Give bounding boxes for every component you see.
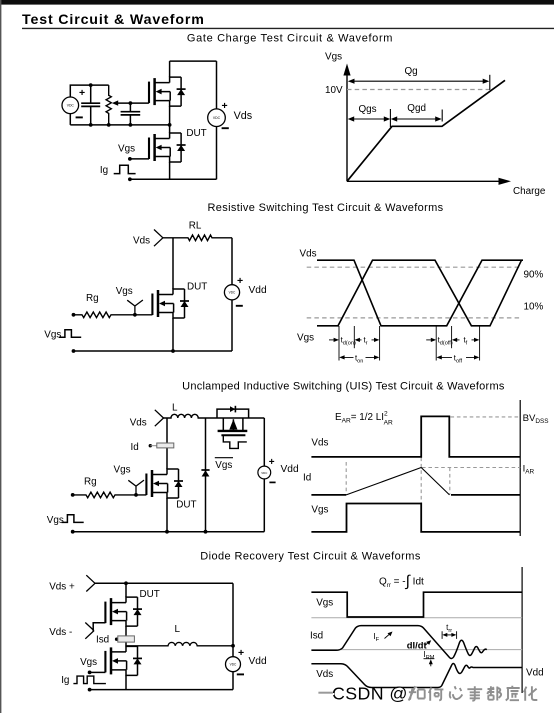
clamp diode D1 (230, 406, 235, 413)
junction dots (89, 83, 93, 87)
Qgd measurement arrow (391, 110, 443, 122)
svg-text:Vgs: Vgs (297, 333, 314, 344)
watermark dash (CJK yi) (320, 693, 335, 695)
svg-text:Rg: Rg (86, 293, 99, 304)
Vds+ probe (86, 575, 95, 591)
Vgs waveform trace (311, 504, 520, 532)
right axis line (519, 400, 521, 536)
mosfet Q1 (upper) (149, 77, 186, 106)
Vgs pulse symbol (59, 330, 81, 338)
svg-text:DUT: DUT (186, 128, 206, 139)
resistor Rg and gate wire (73, 492, 147, 498)
minus label (76, 116, 83, 118)
mosfet DUT (152, 289, 189, 318)
svg-text:Vds: Vds (311, 438, 328, 449)
svg-text:VDC: VDC (213, 116, 221, 120)
node Vgs terminal dot (128, 157, 132, 161)
svg-text:Vgs: Vgs (44, 330, 61, 341)
svg-text:Vgs: Vgs (80, 657, 97, 668)
mosfet Q2 DUT (lower) (149, 133, 186, 162)
bottom rail wire (130, 178, 217, 180)
node bottom-left dot (72, 349, 76, 353)
mid diode branch wire (205, 418, 207, 532)
t_rr annotation (442, 623, 457, 639)
svg-text:Vgs: Vgs (118, 144, 135, 155)
Vgs pulse symbol (62, 515, 84, 523)
Vgs waveform trace (317, 260, 522, 326)
wire Vdd to bottom rail (232, 672, 234, 690)
svg-text:CSDN @: CSDN @ (332, 683, 408, 703)
wire DUT source to bottom rail (172, 318, 174, 351)
svg-text:10V: 10V (325, 85, 343, 96)
svg-text:Ig: Ig (61, 675, 69, 686)
top rail wire (95, 582, 233, 584)
90% dashed line (307, 266, 522, 268)
node DUT drain junction dot (124, 581, 128, 585)
svg-text:Vgs: Vgs (325, 52, 342, 63)
dashed vertical at turn-off (420, 458, 422, 504)
mosfet DUT (upper) (105, 597, 142, 626)
wire bottom rail left (70, 124, 169, 126)
capacitor C2 (121, 103, 141, 125)
wire DUT drain from top rail (172, 238, 174, 289)
svg-text:VDC: VDC (67, 104, 75, 108)
top rail wire (170, 60, 217, 62)
wire VDC bottom (69, 114, 71, 125)
capacitor C1 (81, 85, 100, 125)
wire DUT drain from top rail (166, 418, 168, 469)
svg-text:Id: Id (303, 472, 311, 483)
wiper wire to gate node (118, 102, 149, 104)
wire top rail right to Vdd (263, 418, 265, 466)
wire Vgs terminal to DUT gate (130, 158, 149, 160)
hanzi hua (524, 686, 538, 701)
svg-text:Gate Charge Test Circuit & Wav: Gate Charge Test Circuit & Waveform (187, 32, 393, 44)
svg-text:DUT: DUT (140, 589, 160, 600)
top black bar (0, 0, 554, 5)
node bottom-left dot (71, 530, 75, 534)
diode D2 (201, 470, 209, 477)
Vds probe (155, 410, 164, 426)
svg-text:Vds: Vds (316, 669, 333, 680)
svg-text:Qgd: Qgd (407, 103, 426, 114)
svg-text:dI/dt: dI/dt (407, 639, 427, 650)
clamp mosfet Q3 (218, 418, 248, 435)
svg-text:Vgs: Vgs (47, 515, 64, 526)
Id ramp trace (346, 468, 449, 495)
y-axis with arrow (346, 75, 348, 181)
node DUT source junction dot (165, 530, 169, 534)
node gate terminal dot (72, 313, 76, 317)
svg-text:RL: RL (189, 221, 202, 232)
node inductor right junction dot (231, 644, 235, 648)
svg-text:VDC: VDC (261, 471, 267, 475)
t_d(on) annotation (329, 336, 356, 347)
mosfet Q2 (lower) (105, 646, 142, 675)
Isd waveform trace with recovery ringing (311, 626, 486, 659)
svg-text:Unclamped Inductive Switching: Unclamped Inductive Switching (UIS) Test… (182, 380, 505, 392)
wire Vds source to bottom rail (216, 126, 218, 179)
10% dashed line (307, 317, 522, 319)
voltage source VDC (gate bias) (62, 97, 79, 114)
svg-text:Vgs: Vgs (215, 460, 232, 471)
svg-text:Vds +: Vds + (49, 582, 75, 593)
left page border line (0, 0, 2, 713)
voltage source Vdd VDC (258, 466, 271, 479)
node bottom-left dot (88, 688, 92, 692)
x-axis with arrow (347, 180, 499, 182)
svg-text:Vds: Vds (300, 249, 317, 260)
hanzi xu (506, 686, 520, 701)
dashed Iar level (422, 467, 520, 469)
node bottom-left dot (128, 177, 132, 181)
right axis line (521, 567, 523, 693)
Vds waveform trace with ringing (311, 664, 522, 688)
node Id probe dot (149, 444, 152, 447)
svg-text:Resistive Switching Test Circu: Resistive Switching Test Circuit & Wavef… (207, 202, 443, 214)
wire Q1 drain to top rail (169, 61, 171, 77)
t_r annotation (355, 335, 380, 346)
svg-text:DUT: DUT (187, 282, 207, 293)
svg-text:Rg: Rg (84, 477, 97, 488)
t_d(off) annotation (426, 336, 453, 347)
dashed vertical at avalanche end (449, 468, 451, 495)
minus label (222, 127, 229, 129)
Vds- probe (85, 623, 94, 639)
bottom rail wire (74, 350, 233, 352)
node probe junction dot (133, 313, 137, 317)
bottom rail wire (90, 689, 233, 691)
current sense box (150, 445, 157, 447)
Vds waveform trace (311, 416, 520, 457)
wire Vdd to bottom rail (231, 300, 233, 351)
svg-text:Qgs: Qgs (359, 104, 377, 115)
svg-text:Vgs: Vgs (114, 465, 131, 476)
Qgs measurement arrow (348, 109, 391, 127)
svg-text:Diode Recovery Test Circuit &: Diode Recovery Test Circuit & Waveforms (200, 551, 421, 563)
svg-text:Vgs: Vgs (311, 504, 328, 515)
watermark hanzi strokes (410, 687, 539, 702)
inductor L wire (126, 642, 233, 645)
Vds waveform trace (317, 260, 523, 326)
10V dashed line (347, 89, 490, 91)
minus label (269, 481, 275, 483)
hanzi dou (487, 686, 501, 700)
current sense box (118, 636, 135, 642)
wire right side down to Vds source (216, 61, 218, 109)
clamp gate pulse symbol (223, 435, 247, 448)
svg-text:Vdd: Vdd (249, 656, 267, 667)
Vgs waveform trace (311, 592, 522, 617)
wire DUT source to bottom rail (166, 498, 168, 532)
timing tick lines left (338, 326, 340, 361)
I_RM annotation (424, 650, 435, 666)
dI/dt label with arrow (407, 639, 431, 650)
wire Vdd to bottom rail (263, 479, 265, 532)
svg-text:Id: Id (131, 442, 139, 453)
Vgs probe Y (127, 300, 143, 315)
node DUT source junction dot (171, 349, 175, 353)
Qg measurement arrow (348, 75, 490, 90)
bottom rail wire (73, 531, 265, 533)
hanzi shi (467, 686, 482, 700)
wire top-left loop (70, 85, 108, 97)
node Isd probe dot (115, 638, 118, 641)
svg-text:10%: 10% (524, 302, 544, 313)
svg-text:Qg: Qg (405, 66, 418, 77)
svg-text:Charge: Charge (513, 186, 546, 197)
Vds probe (154, 230, 163, 247)
wire Vds- probe to DUT gate (93, 623, 105, 631)
svg-text:+: + (237, 275, 243, 287)
wire DUT source down through sense (125, 626, 127, 646)
svg-text:Vdd: Vdd (281, 464, 299, 475)
resistor Rg and gate wire (74, 312, 153, 318)
t_off annotation (436, 353, 479, 364)
svg-text:90%: 90% (524, 270, 544, 281)
wire Vgs terminal to gate (90, 671, 106, 673)
title underline (22, 27, 554, 29)
svg-text:Test Circuit & Waveform: Test Circuit & Waveform (22, 12, 205, 28)
svg-text:Vds -: Vds - (49, 627, 72, 638)
timing tick lines right (435, 326, 437, 361)
gate charge curve (347, 80, 505, 181)
mosfet DUT (146, 469, 183, 498)
inductor L (164, 414, 265, 418)
t_on annotation (339, 353, 379, 364)
hanzi xin (450, 686, 463, 699)
Id waveform flat segments (311, 494, 520, 496)
minus label (237, 673, 244, 675)
svg-text:+: + (238, 647, 244, 659)
svg-text:Vds: Vds (234, 110, 253, 122)
resistor RL (163, 235, 232, 241)
svg-text:Isd: Isd (310, 631, 323, 642)
hanzi ru (409, 686, 425, 700)
wire Q2 source to bottom rail (125, 675, 127, 689)
potentiometer R1 (106, 85, 118, 125)
wire mid node (Q1 source to DUT drain) (169, 106, 171, 133)
Ig double pulse symbol (73, 676, 106, 684)
Vgs-bar label (215, 458, 233, 471)
node Vgs terminal dot (88, 671, 92, 675)
node gate terminal dot (71, 493, 75, 497)
I_F label with arrow (373, 632, 392, 643)
svg-text:L: L (172, 403, 178, 414)
Vgs zero gray line (311, 617, 522, 619)
svg-text:L: L (175, 624, 181, 635)
dashed vertical at avalanche start (345, 462, 347, 495)
svg-text:Vgs: Vgs (116, 286, 133, 297)
wire DUT drain (125, 583, 127, 597)
svg-text:DUT: DUT (176, 499, 196, 510)
voltage source Vds VDC (208, 109, 226, 127)
voltage source Vdd VDC (226, 657, 241, 672)
Isd zero gray line (311, 649, 522, 651)
clamp diode loop (217, 409, 249, 418)
node diode branch junction dot (204, 530, 208, 534)
Ig pulse symbol (114, 165, 136, 173)
svg-text:VDC: VDC (229, 291, 236, 295)
wire top rail to Vdd (231, 238, 233, 285)
svg-text:+: + (79, 87, 85, 99)
watermark text latin part (332, 683, 408, 703)
node probe junction dot (134, 493, 138, 497)
wire Q2 source to bottom rail (169, 162, 171, 179)
hanzi he (429, 688, 444, 701)
minus label (236, 305, 243, 307)
voltage source Vdd VDC (224, 285, 239, 300)
svg-text:Vds: Vds (130, 418, 147, 429)
Vgs probe Y (128, 480, 144, 495)
svg-text:Vgs: Vgs (316, 597, 333, 608)
svg-text:Vds: Vds (133, 236, 150, 247)
svg-text:Vdd: Vdd (249, 285, 267, 296)
svg-text:Vdd: Vdd (526, 668, 544, 679)
svg-text:+: + (222, 100, 228, 112)
svg-text:+: + (269, 457, 275, 468)
dashed BVdss level (451, 416, 521, 418)
svg-text:Ig: Ig (100, 165, 108, 176)
svg-text:Isd: Isd (96, 635, 109, 646)
t_f annotation (452, 335, 480, 346)
wire right side down to Vdd (232, 583, 234, 656)
svg-text:VDC: VDC (230, 663, 237, 667)
